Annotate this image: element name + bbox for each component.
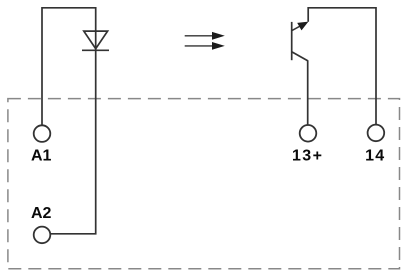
terminal 14 circle (368, 125, 385, 142)
coupling arrow 2 head (212, 42, 225, 50)
transistor Q collector diagonal (292, 52, 308, 61)
wire input loop: A1 up, top horizontal, diode branch down, horizontal to A2 (42, 8, 96, 234)
coupling arrow 1 shaft (185, 35, 213, 37)
transistor Q base bar (291, 22, 293, 60)
wire collector lead down to terminal 13+ (307, 60, 309, 125)
terminal A1 circle (34, 125, 51, 142)
dashed module enclosure (8, 99, 400, 269)
svg-text:A2: A2 (31, 205, 52, 222)
diode D (LED input) triangle (84, 31, 108, 49)
svg-text:13+: 13+ (292, 148, 323, 165)
terminal A2 circle (34, 227, 51, 244)
terminal 13+ circle (300, 125, 317, 142)
wire emitter lead up and top horizontal to terminal 14 (308, 8, 376, 125)
transistor Q emitter diagonal (292, 23, 305, 30)
svg-text:14: 14 (365, 148, 385, 165)
coupling arrow 1 head (212, 32, 225, 40)
diode cathode bar (82, 49, 109, 51)
coupling arrow 2 shaft (185, 45, 213, 47)
transistor Q emitter arrowhead (297, 22, 308, 31)
svg-text:A1: A1 (31, 148, 52, 165)
